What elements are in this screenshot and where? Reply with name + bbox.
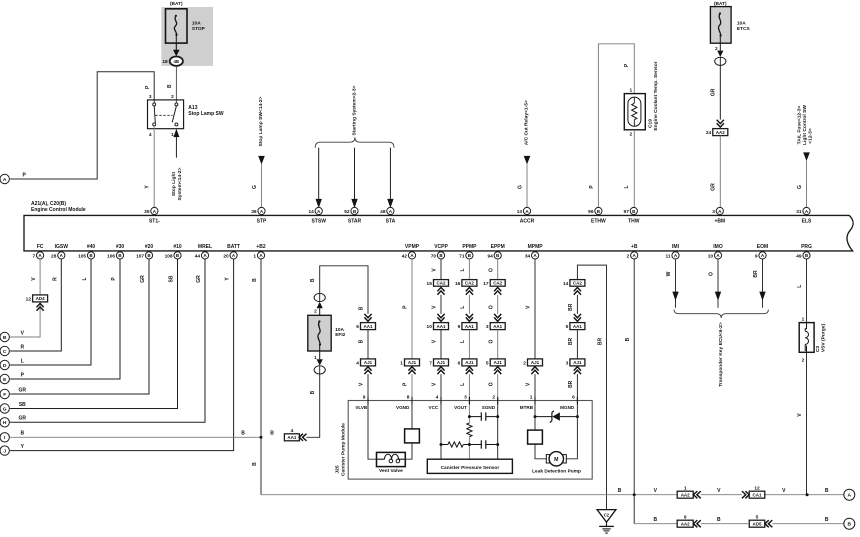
junction: [496, 443, 499, 446]
svg-text:B: B: [653, 517, 657, 523]
node C (page left): [0, 346, 9, 355]
J/B pin 4 VCC: [429, 395, 441, 410]
connector 18 4B: [162, 57, 183, 66]
svg-text:Engine Control Module: Engine Control Module: [31, 207, 86, 213]
wire L: [468, 374, 470, 404]
wire O: [497, 330, 499, 359]
svg-text:1: 1: [400, 361, 403, 367]
svg-text:Starting System<2-3>: Starting System<2-3>: [352, 85, 358, 135]
svg-text:Stop Lamp SW: Stop Lamp SW: [188, 111, 224, 117]
svg-text:GR: GR: [19, 387, 27, 393]
connector 4 AA1: [284, 428, 306, 441]
wire O: [497, 259, 499, 280]
svg-text:105: 105: [78, 253, 86, 259]
switch A13 Stop Lamp SW: [148, 94, 184, 138]
wire label P: [589, 185, 595, 189]
ECU bottom pin 34(A) MPMP: [525, 244, 543, 259]
svg-text:BR: BR: [568, 380, 574, 388]
wire label SB: [19, 402, 26, 408]
wire label Y: [225, 277, 231, 281]
node A (from page left): [0, 174, 9, 183]
wire label SB: [169, 275, 175, 282]
svg-text:J: J: [3, 448, 6, 454]
svg-text:6: 6: [356, 324, 359, 330]
ECU top pin 96(B) ETHW: [588, 207, 606, 224]
wire MGND internal: [567, 404, 578, 458]
wire L PRG to C3: [806, 259, 808, 323]
svg-text:17: 17: [483, 281, 489, 287]
svg-text:5: 5: [566, 324, 569, 330]
wire label R: [52, 277, 58, 281]
svg-text:CA2: CA2: [573, 281, 582, 286]
wire label BR: [568, 380, 574, 388]
svg-text:24: 24: [706, 130, 712, 136]
wire V to MTRB: [534, 374, 536, 404]
thermistor C19 Engine Coolant Temp Sensor: [624, 87, 645, 137]
svg-text:#10: #10: [173, 244, 182, 250]
svg-text:AJ1: AJ1: [573, 360, 582, 365]
component box on VGND branch: [405, 429, 420, 443]
svg-text:AA1: AA1: [493, 324, 502, 329]
svg-text:2: 2: [523, 361, 526, 367]
label TAIL Fuse / Light Control SW: [796, 105, 813, 145]
splice ellipse above EFI2: [314, 293, 325, 301]
wire B +B2 down: [260, 259, 262, 495]
wire to STA: [387, 148, 393, 209]
svg-text:VPMP: VPMP: [405, 244, 420, 250]
svg-text:4B: 4B: [173, 59, 179, 64]
wire bottom line to node A: [261, 494, 844, 496]
svg-text:PRG: PRG: [801, 244, 812, 250]
wire GR to connector AA2: [719, 65, 721, 119]
svg-text:A: A: [848, 493, 852, 499]
svg-text:EPPM: EPPM: [491, 244, 505, 250]
node B (page left): [0, 332, 9, 341]
wire V to VLVB: [367, 374, 369, 404]
svg-text:AD5: AD5: [752, 521, 761, 526]
canister pressure sensor box: [427, 459, 512, 473]
splice ellipse below EFI2: [314, 366, 325, 374]
svg-text:VOUT: VOUT: [454, 405, 467, 410]
wire V from pin FC to node B: [10, 259, 40, 337]
svg-text:B: B: [20, 431, 24, 437]
svg-text:GR: GR: [19, 416, 27, 422]
svg-text:IMO: IMO: [713, 244, 723, 250]
svg-text:Stop Lamp SW<14-2>: Stop Lamp SW<14-2>: [258, 96, 264, 146]
svg-text:B: B: [825, 488, 829, 494]
svg-text:ACCR: ACCR: [520, 218, 535, 224]
wire L: [468, 295, 470, 314]
wire label L: [21, 358, 24, 364]
label C19 Engine Coolant Temp Sensor: [647, 61, 659, 130]
wire label Y: [21, 444, 25, 450]
resistor VCC-VOUT: [441, 442, 469, 447]
svg-text:9: 9: [458, 324, 461, 330]
wire label L: [82, 277, 88, 280]
svg-text:1: 1: [530, 395, 533, 401]
wire label P: [21, 372, 25, 378]
label A21(A) C20(B) Engine Control Module: [31, 201, 86, 213]
wire W to transponder: [672, 259, 678, 308]
svg-text:B: B: [270, 431, 274, 437]
svg-text:18: 18: [162, 59, 168, 65]
junction: [440, 443, 443, 446]
svg-text:STP: STP: [257, 218, 267, 224]
svg-text:42: 42: [402, 253, 408, 259]
ECU bottom pin 7(A) FC: [33, 244, 44, 259]
wire label V: [21, 330, 25, 336]
wire V: [440, 259, 442, 280]
wire V: [440, 295, 442, 314]
svg-text:49: 49: [796, 253, 802, 259]
svg-text:2: 2: [492, 395, 495, 401]
wire label B: [310, 390, 316, 394]
svg-text:O: O: [709, 272, 715, 276]
wire label B: [359, 339, 365, 343]
svg-text:3: 3: [486, 324, 489, 330]
svg-text:B: B: [825, 517, 829, 523]
svg-text:AJ1: AJ1: [465, 360, 474, 365]
connector 5 AA1: [566, 314, 585, 330]
svg-text:4: 4: [149, 132, 152, 138]
svg-text:10A: 10A: [737, 20, 746, 26]
svg-text:G: G: [797, 185, 803, 189]
svg-text:16: 16: [455, 281, 461, 287]
ground C2: [597, 510, 616, 533]
svg-text:J25: J25: [334, 465, 340, 473]
fuse holder shading: [161, 7, 213, 66]
svg-text:L: L: [460, 340, 466, 343]
connector 5 AJ1: [486, 359, 505, 374]
wire P to VGND: [411, 374, 413, 404]
svg-text:3: 3: [464, 395, 467, 401]
wire label V: [654, 488, 658, 494]
svg-text:1: 1: [802, 317, 805, 323]
svg-text:THW: THW: [628, 218, 640, 224]
svg-text:CA2: CA2: [436, 281, 445, 286]
svg-text:107: 107: [136, 253, 144, 259]
label 10A EFI2: [335, 327, 345, 338]
wire label W: [666, 271, 672, 276]
wire label B: [717, 517, 721, 523]
svg-text:A/C Cut Relay<1-5>: A/C Cut Relay<1-5>: [523, 100, 529, 145]
svg-text:C2: C2: [604, 512, 610, 517]
svg-text:EOM: EOM: [757, 244, 768, 250]
ECU bottom pin 42(A) VPMP: [402, 244, 420, 259]
svg-text:VCPP: VCPP: [434, 244, 448, 250]
svg-text:Leak Detection Pump: Leak Detection Pump: [532, 468, 581, 474]
wire label B: [825, 488, 829, 494]
svg-text:B: B: [359, 339, 365, 343]
wire R from pin x61.3 to node C: [10, 259, 61, 351]
svg-text:AJ1: AJ1: [408, 360, 417, 365]
junction +B line1: [633, 493, 636, 496]
svg-text:GR: GR: [711, 183, 717, 191]
wire label B: [618, 488, 622, 494]
svg-text:B: B: [359, 306, 365, 310]
svg-text:Stop Light: Stop Light: [171, 172, 177, 197]
svg-text:13: 13: [517, 209, 523, 215]
svg-text:MGND: MGND: [560, 405, 575, 410]
wire label V: [432, 305, 438, 309]
wire label B: [825, 517, 829, 523]
wire label B: [252, 462, 258, 466]
svg-text:BR: BR: [568, 338, 574, 346]
svg-text:BR: BR: [568, 303, 574, 311]
junction: [496, 415, 499, 418]
svg-text:ETHW: ETHW: [591, 218, 606, 224]
svg-text:B: B: [618, 488, 622, 494]
connector 12 CA1: [742, 485, 765, 498]
svg-text:14: 14: [308, 209, 314, 215]
junction MGND: [576, 415, 579, 418]
ECU bottom pin 44(A) MREL: [195, 244, 212, 259]
wire label Y: [144, 185, 150, 189]
connector 1 AJ1: [400, 359, 419, 374]
svg-text:3: 3: [566, 361, 569, 367]
svg-text:IGSW: IGSW: [55, 244, 69, 250]
wire B to stop lamp SW pin2: [175, 66, 177, 103]
svg-text:44: 44: [195, 253, 201, 259]
svg-text:10A: 10A: [192, 21, 201, 27]
svg-text:(BAT): (BAT): [170, 1, 183, 7]
svg-text:10: 10: [708, 253, 714, 259]
svg-text:B: B: [252, 278, 258, 282]
wire GR from pin x149 to node F: [10, 259, 149, 394]
ECU top pin 52(B) STAR: [344, 207, 361, 224]
ECU top pin 97(B) THW: [624, 207, 640, 224]
wire P ETHW loop: [598, 44, 634, 208]
label Vent Valve: [379, 468, 403, 474]
svg-text:W: W: [666, 271, 672, 276]
svg-text:BR: BR: [597, 338, 603, 346]
wire G to ACCR: [524, 156, 531, 207]
wire label O: [488, 305, 494, 309]
svg-text:MREL: MREL: [198, 244, 212, 250]
svg-text:FC: FC: [37, 244, 44, 250]
label 10A ETCS: [737, 20, 751, 32]
wire label B: [653, 517, 657, 523]
wire bottom line to node B: [634, 523, 844, 525]
wire label GR: [196, 275, 202, 283]
label 10A STOP: [192, 21, 206, 32]
wire label V: [797, 413, 803, 417]
wire box to motor: [535, 444, 546, 459]
svg-text:AA2: AA2: [681, 521, 690, 526]
connector 16 CA2: [455, 280, 477, 295]
ECU bottom pin 105(B) #40: [78, 244, 95, 259]
svg-text:R: R: [20, 344, 24, 350]
connector 10 AA1: [427, 314, 449, 330]
label C3 VSV (Purge): [815, 323, 827, 352]
node D (page left): [0, 360, 9, 369]
svg-text:G: G: [3, 406, 7, 412]
svg-text:PPMP: PPMP: [462, 244, 477, 250]
svg-text:L: L: [460, 268, 466, 271]
connector 6 AJ1: [458, 359, 477, 374]
svg-text:Engine Coolant Temp. Sensor: Engine Coolant Temp. Sensor: [653, 61, 659, 130]
ECU A21(A) C20(B) Engine Control Module box: [24, 215, 853, 251]
ECU bottom pin 106(B) #30: [107, 244, 124, 259]
svg-text:10: 10: [427, 324, 433, 330]
wire label L: [797, 285, 803, 288]
svg-text:AA2: AA2: [716, 130, 725, 135]
J/B Canister Pump Module box: [348, 401, 592, 480]
label Leak Detection Pump: [532, 468, 581, 474]
svg-text:CA2: CA2: [465, 281, 474, 286]
svg-text:AD4: AD4: [36, 296, 45, 301]
svg-text:36: 36: [251, 209, 257, 215]
node B (page right): [844, 518, 855, 529]
svg-text:AA1: AA1: [573, 324, 582, 329]
svg-text:15: 15: [427, 281, 433, 287]
wire VCC internal: [440, 404, 442, 459]
svg-text:3: 3: [712, 209, 715, 215]
wire MTRB internal: [534, 404, 536, 430]
svg-text:BATT: BATT: [227, 244, 240, 250]
wire Y switch pin4 to ST1-: [153, 126, 155, 207]
svg-text:2: 2: [802, 358, 805, 364]
svg-text:MPMP: MPMP: [528, 244, 544, 250]
svg-text:GR: GR: [196, 275, 202, 283]
wire label L: [460, 268, 466, 271]
svg-text:<12-3>: <12-3>: [807, 128, 813, 144]
ECU top pin 14(A) STSW: [308, 207, 326, 224]
wire BR: [576, 295, 578, 314]
svg-text:AJ1: AJ1: [364, 360, 373, 365]
wire V MPMP down: [534, 259, 536, 359]
svg-text:5: 5: [756, 514, 759, 520]
component box on MTRB branch: [528, 430, 543, 444]
svg-text:AA1: AA1: [465, 324, 474, 329]
svg-text:7: 7: [33, 253, 36, 259]
fuse 10A EFI2: [308, 315, 331, 351]
connector 6 AA1: [356, 314, 375, 330]
svg-text:B: B: [310, 390, 316, 394]
svg-text:O: O: [488, 305, 494, 309]
ECU bottom pin 11(A) IMI: [666, 244, 680, 259]
wire label G: [518, 185, 524, 189]
wire G to ELS: [803, 152, 810, 207]
svg-text:O: O: [488, 382, 494, 386]
svg-text:1: 1: [630, 87, 633, 93]
svg-text:2: 2: [314, 309, 317, 315]
junction C3 line1: [806, 493, 809, 496]
svg-text:ELS: ELS: [802, 218, 812, 224]
svg-text:+BM: +BM: [714, 218, 725, 224]
J/B pin 6 MGND: [560, 395, 577, 410]
connector 17 CA2: [483, 280, 505, 295]
wire P from pin x120 to node E: [10, 259, 120, 379]
junction +B2 / node I: [260, 436, 263, 439]
svg-text:SGND: SGND: [482, 405, 496, 410]
wire Y from pin x233.6 to node J: [10, 259, 234, 451]
ECU bottom pin 2(A) +B: [627, 244, 638, 259]
wire label B: [241, 431, 245, 437]
ECU bottom pin 1(A) +B2: [253, 244, 265, 259]
wire P VPMP down: [411, 259, 413, 359]
motor leak detection pump: [546, 452, 566, 466]
svg-text:A: A: [3, 177, 7, 183]
wire label B: [359, 306, 365, 310]
junction: [468, 415, 471, 418]
label Transponder Key ECU 6-2: [718, 322, 724, 387]
svg-text:#20: #20: [145, 244, 154, 250]
label (BAT): [170, 1, 183, 7]
svg-text:ETCS: ETCS: [737, 26, 751, 32]
wire fuse to connector 4B: [173, 43, 180, 56]
svg-text:12: 12: [26, 297, 32, 303]
solenoid C3 VSV (Purge): [799, 317, 814, 364]
wire GR to +BM: [719, 136, 721, 208]
svg-text:STSW: STSW: [311, 218, 326, 224]
wire label GR: [711, 183, 717, 191]
fuse 10A ETCS: [710, 7, 731, 44]
junction: [468, 443, 471, 446]
svg-text:14: 14: [563, 281, 569, 287]
svg-text:AA1: AA1: [287, 435, 296, 440]
wire label V: [432, 268, 438, 272]
svg-text:34: 34: [525, 253, 531, 259]
label Stop Lamp SW 14-2: [258, 96, 264, 146]
svg-text:Canister Pressure Sensor: Canister Pressure Sensor: [441, 465, 500, 471]
wire BR: [576, 330, 578, 359]
svg-text:Vent Valve: Vent Valve: [379, 468, 403, 474]
wire SB from pin x177.5 to node G: [10, 259, 177, 409]
capacitor lower: [469, 440, 497, 448]
wire O: [497, 374, 499, 404]
connector 2 AJ1: [523, 359, 542, 374]
svg-text:2: 2: [630, 131, 633, 137]
wire label V: [526, 382, 532, 386]
connector 9 AA1: [458, 314, 477, 330]
ECU bottom pin 10(A) IMO: [708, 244, 723, 259]
wire label BR: [568, 303, 574, 311]
svg-text:AJ1: AJ1: [531, 360, 540, 365]
wire label L: [460, 340, 466, 343]
fuse pin 2 arrow: [314, 302, 323, 316]
ECU bottom pin 20(A) BATT: [223, 244, 240, 259]
svg-text:L: L: [82, 277, 88, 280]
svg-text:AJ1: AJ1: [494, 360, 503, 365]
label A13 Stop Lamp SW: [188, 105, 224, 117]
svg-text:28: 28: [51, 253, 57, 259]
svg-text:F: F: [3, 392, 6, 398]
wire label L: [460, 383, 466, 386]
svg-text:Light Control SW: Light Control SW: [802, 105, 808, 145]
svg-text:IMI: IMI: [672, 244, 680, 250]
wire label B: [252, 278, 258, 282]
svg-text:#30: #30: [116, 244, 125, 250]
svg-text:97: 97: [624, 209, 630, 215]
svg-text:L: L: [460, 306, 466, 309]
wire label GR: [711, 88, 717, 96]
wire label B: [310, 278, 316, 282]
svg-text:VCC: VCC: [429, 405, 439, 410]
svg-text:+B2: +B2: [256, 244, 266, 250]
wire label L: [460, 306, 466, 309]
svg-text:4: 4: [436, 395, 439, 401]
svg-text:1: 1: [253, 253, 256, 259]
svg-text:C19: C19: [647, 119, 653, 128]
node J (page left): [0, 446, 9, 455]
J/B pin 9 VLVB: [355, 395, 368, 410]
wire label V: [526, 305, 532, 309]
wire VGND to vent valve: [405, 404, 412, 459]
svg-text:MTRB: MTRB: [520, 405, 534, 410]
svg-text:VSV (Purge): VSV (Purge): [821, 323, 827, 352]
wire V: [440, 374, 442, 404]
